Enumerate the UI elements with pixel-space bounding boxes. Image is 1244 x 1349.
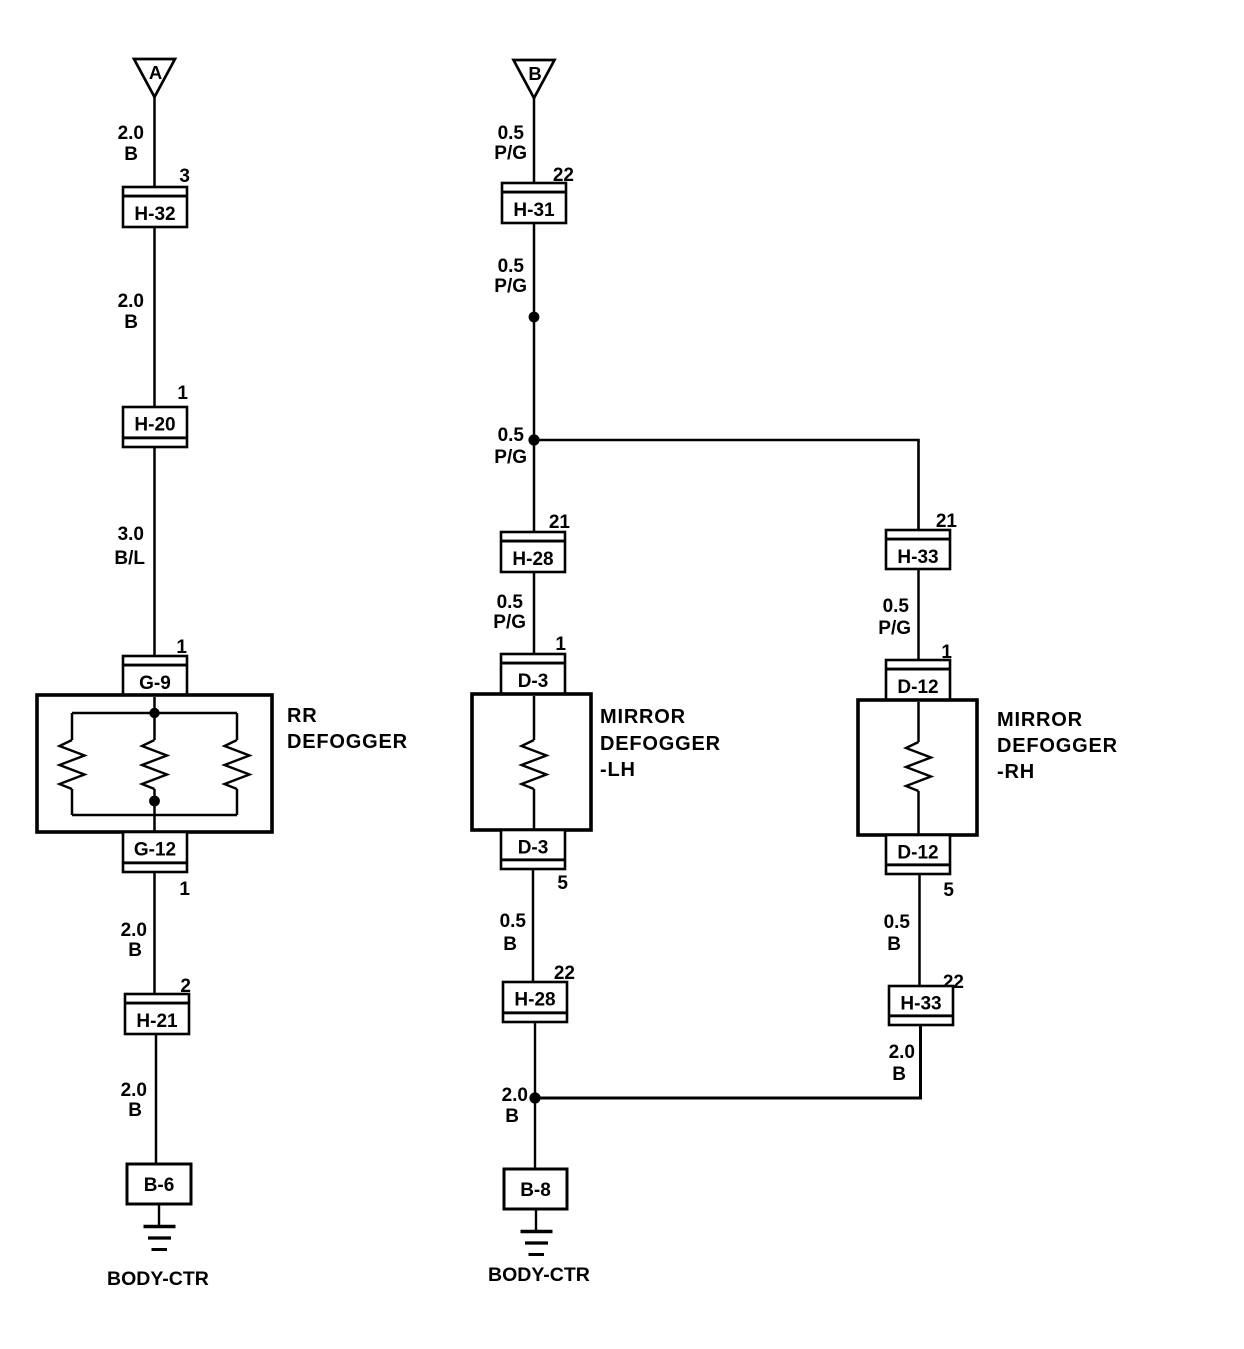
value label 0.5 P/G (B to H-31) [494, 123, 527, 164]
value label 2.0 B (G-12 to H-21) [121, 920, 147, 961]
svg-text:-LH: -LH [600, 759, 636, 781]
value label 2.0 B (H-28 to B-8) [502, 1085, 528, 1127]
node B (connector triangle B) [514, 60, 555, 98]
connector H-20 [123, 407, 187, 447]
svg-text:A: A [149, 62, 162, 83]
svg-text:B-8: B-8 [520, 1180, 551, 1201]
resistor left (RR defogger) [60, 713, 85, 815]
resistor (mirror defogger LH) [522, 696, 547, 830]
svg-text:2.0: 2.0 [118, 123, 144, 144]
junction to RH branch [528, 434, 539, 445]
svg-text:D-12: D-12 [897, 843, 938, 864]
connector D-12 top [886, 660, 950, 700]
svg-text:H-28: H-28 [512, 549, 553, 570]
ground below B-8 [521, 1209, 553, 1255]
wire B to H-31 [533, 98, 536, 185]
wire H-28 to D-3 [533, 572, 536, 655]
connector H-28 [501, 532, 565, 572]
svg-text:B: B [128, 940, 142, 961]
svg-text:5: 5 [557, 873, 568, 894]
svg-text:B: B [892, 1064, 906, 1085]
wire H-28 to B-8 [534, 1022, 536, 1170]
junction bottom (RR defogger) [149, 796, 160, 807]
wire branch to H-33 [534, 440, 919, 531]
connector H-33 [886, 530, 950, 569]
svg-text:B: B [503, 934, 517, 955]
svg-text:P/G: P/G [493, 612, 526, 633]
connector H-32 [123, 187, 187, 227]
RR defogger box [37, 695, 272, 832]
svg-text:B/L: B/L [114, 548, 145, 569]
value label 0.5 P/G (at branch) [494, 425, 527, 468]
svg-text:DEFOGGER: DEFOGGER [287, 731, 408, 753]
connector H-31 [502, 183, 566, 223]
connector H-33 bottom [889, 986, 953, 1025]
svg-text:2.0: 2.0 [889, 1042, 915, 1063]
svg-text:P/G: P/G [878, 618, 911, 639]
value label 3.0 B/L [114, 524, 145, 569]
svg-text:2.0: 2.0 [118, 291, 144, 312]
value label 2.0 B (below H-33) [889, 1042, 915, 1085]
connector B-8 [504, 1169, 567, 1209]
value label 0.5 P/G (H-28 to D-3) [493, 592, 526, 633]
svg-text:1: 1 [179, 879, 190, 900]
wire D-12 to H-33 (ground side) [918, 874, 921, 987]
svg-text:MIRROR: MIRROR [997, 709, 1083, 731]
svg-text:2.0: 2.0 [502, 1085, 528, 1106]
svg-text:H-20: H-20 [134, 415, 175, 436]
connector B-6 [127, 1164, 191, 1204]
wire H-32 to H-20 [153, 227, 156, 408]
svg-text:DEFOGGER: DEFOGGER [600, 733, 721, 755]
wire H-31 to H-28 [533, 223, 536, 533]
value label 0.5 B (D-12 to H-33) [884, 912, 911, 955]
wire D-3 to H-28 (ground side) [532, 869, 535, 983]
svg-text:1: 1 [177, 383, 188, 404]
connector H-21 [125, 994, 189, 1034]
junction to RH ground branch [529, 1092, 540, 1103]
resistor center (RR defogger) [142, 697, 167, 832]
ground below B-6 [144, 1204, 176, 1250]
svg-text:B: B [528, 63, 541, 84]
junction top (RR defogger) [149, 708, 159, 718]
svg-text:3.0: 3.0 [118, 524, 144, 545]
mirror defogger LH box [472, 694, 591, 830]
svg-text:0.5: 0.5 [498, 123, 525, 144]
connector G-12 [123, 832, 187, 872]
label MIRROR DEFOGGER -RH [997, 709, 1118, 783]
svg-text:B: B [124, 144, 138, 165]
wire H-20 to G-9 [153, 447, 156, 657]
svg-text:H-33: H-33 [900, 994, 941, 1015]
svg-text:0.5: 0.5 [497, 592, 524, 613]
svg-text:P/G: P/G [494, 276, 527, 297]
svg-text:G-12: G-12 [134, 840, 176, 861]
svg-text:RR: RR [287, 705, 318, 727]
wire G-12 to H-21 [153, 872, 156, 995]
svg-text:MIRROR: MIRROR [600, 706, 686, 728]
connector H-28 bottom [503, 982, 567, 1022]
svg-text:0.5: 0.5 [498, 256, 525, 277]
svg-text:D-3: D-3 [518, 671, 549, 692]
svg-text:H-21: H-21 [136, 1011, 178, 1032]
svg-text:B: B [124, 312, 138, 333]
value label 2.0 B (A to H-32) [118, 123, 144, 165]
svg-text:21: 21 [549, 512, 571, 533]
svg-text:H-31: H-31 [513, 200, 555, 221]
value label 0.5 B (D-3 to H-28) [500, 911, 527, 955]
svg-text:P/G: P/G [494, 447, 527, 468]
svg-text:BODY-CTR: BODY-CTR [107, 1268, 209, 1290]
svg-text:0.5: 0.5 [498, 425, 525, 446]
junction (splice) [529, 312, 540, 323]
svg-text:3: 3 [179, 166, 190, 187]
connector D-12 bottom [886, 835, 950, 874]
wire A to H-32 [153, 97, 156, 189]
svg-text:H-32: H-32 [134, 204, 175, 225]
label MIRROR DEFOGGER -LH [600, 706, 721, 781]
value label 0.5 P/G (below H-31) [494, 256, 527, 297]
value label 0.5 P/G (H-33 to D-12) [878, 596, 911, 639]
svg-text:H-33: H-33 [897, 547, 938, 568]
value label 2.0 B (H-32 to H-20) [118, 291, 144, 333]
svg-text:H-28: H-28 [514, 990, 555, 1011]
wire loop top (RR defogger) [72, 712, 237, 715]
wire H-21 to B-6 [155, 1034, 158, 1165]
node A (connector triangle A) [134, 59, 175, 97]
resistor right (RR defogger) [225, 713, 250, 815]
svg-text:D-3: D-3 [518, 838, 549, 859]
resistor (mirror defogger RH) [906, 702, 931, 835]
svg-text:DEFOGGER: DEFOGGER [997, 735, 1118, 757]
wire H-33 to D-12 [917, 569, 920, 661]
wire loop bottom (RR defogger) [72, 814, 237, 817]
svg-text:B: B [505, 1106, 519, 1127]
svg-text:0.5: 0.5 [883, 596, 910, 617]
connector D-3 top [501, 654, 565, 694]
svg-text:5: 5 [943, 880, 954, 901]
svg-text:B: B [887, 934, 901, 955]
mirror defogger RH box [858, 700, 977, 835]
svg-text:BODY-CTR: BODY-CTR [488, 1264, 590, 1286]
label RR DEFOGGER [287, 705, 408, 753]
value label 2.0 B (H-21 to B-6) [121, 1080, 147, 1121]
svg-text:D-12: D-12 [897, 677, 938, 698]
wire ground branch from H-33 [535, 1025, 921, 1098]
svg-text:0.5: 0.5 [500, 911, 527, 932]
svg-text:B: B [128, 1100, 142, 1121]
svg-text:2.0: 2.0 [121, 920, 147, 941]
svg-text:0.5: 0.5 [884, 912, 911, 933]
connector G-9 [123, 656, 187, 696]
svg-text:2.0: 2.0 [121, 1080, 147, 1101]
svg-text:1: 1 [555, 634, 566, 655]
svg-text:P/G: P/G [494, 143, 527, 164]
connector D-3 bottom [501, 830, 565, 869]
svg-text:G-9: G-9 [139, 673, 171, 694]
svg-text:-RH: -RH [997, 761, 1035, 783]
svg-text:B-6: B-6 [144, 1175, 175, 1196]
